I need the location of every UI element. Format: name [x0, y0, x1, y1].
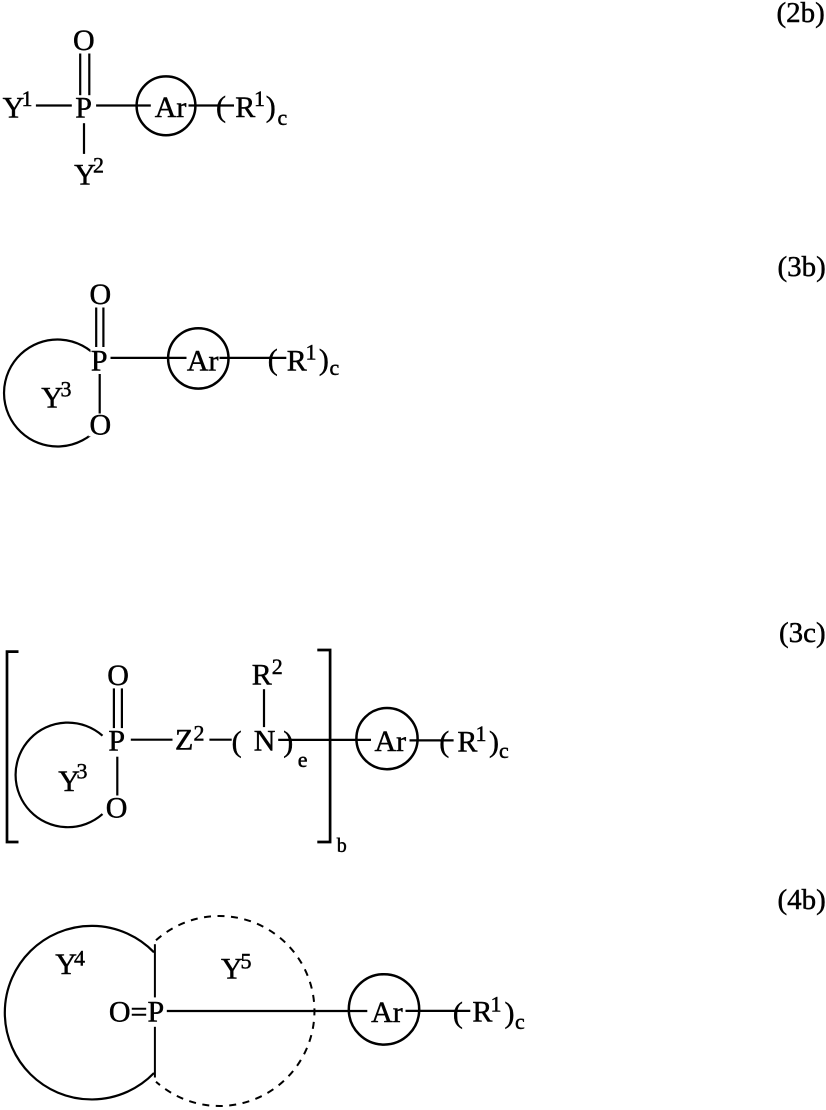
wire bond P-Z2 (3c)	[131, 739, 173, 741]
svg-text:b: b	[337, 835, 347, 857]
svg-text:1: 1	[22, 86, 33, 111]
substituent R2 (3c)	[252, 654, 283, 692]
svg-text:5: 5	[241, 949, 252, 974]
atom O (2b top)	[73, 24, 95, 57]
ring junction line (4b) upper	[154, 944, 156, 997]
label Y4 (4b)	[55, 946, 85, 982]
svg-text:): )	[489, 726, 499, 759]
svg-text:(2b): (2b)	[777, 0, 825, 29]
substituent (R1)c (4b)	[453, 991, 525, 1034]
svg-text:c: c	[499, 738, 509, 763]
svg-text:(: (	[232, 725, 242, 758]
group O=P (4b)	[109, 995, 164, 1028]
formula label (3c)	[779, 617, 826, 649]
svg-text:Y: Y	[221, 953, 243, 986]
label Y5 (4b)	[221, 949, 252, 986]
aryl circle Ar (3c)	[356, 708, 417, 769]
svg-text:(: (	[216, 91, 226, 124]
wire bond N-bracket-Ar (3c)	[278, 739, 371, 741]
ring Y5 dashed arc (4b)	[156, 916, 314, 1106]
subscript b (3c)	[337, 835, 347, 857]
linker Z2 (3c)	[175, 721, 205, 757]
double bond P=O (3c)	[113, 688, 115, 728]
ring Y3 arc (3c)	[16, 723, 103, 828]
svg-text:O=P: O=P	[109, 995, 164, 1028]
svg-text:2: 2	[93, 153, 104, 178]
svg-text:O: O	[106, 792, 128, 825]
svg-text:c: c	[330, 355, 340, 380]
wire bond Z2-(N (3c)	[209, 739, 231, 741]
svg-text:Ar: Ar	[371, 996, 403, 1029]
svg-text:(: (	[268, 343, 278, 376]
svg-text:2: 2	[194, 721, 205, 746]
svg-text:(3b): (3b)	[778, 251, 826, 283]
wire bond P-O (3b)	[99, 374, 101, 414]
atom P (3c)	[108, 724, 125, 757]
wire bond P-O (3c)	[116, 757, 118, 796]
svg-text:1: 1	[476, 721, 487, 746]
svg-text:3: 3	[77, 759, 88, 784]
formula label (2b)	[777, 0, 825, 29]
atom P (3b)	[91, 344, 108, 377]
svg-text:(4b): (4b)	[778, 884, 826, 916]
svg-text:(: (	[439, 726, 449, 759]
substituent Y2	[74, 153, 104, 192]
svg-text:Z: Z	[175, 723, 193, 756]
svg-text:P: P	[75, 91, 92, 124]
label Ar (3c)	[375, 725, 407, 758]
aryl circle Ar (4b)	[349, 974, 419, 1044]
svg-text:1: 1	[254, 86, 265, 111]
wire bond Ar-(R1)c (2b)	[189, 104, 235, 106]
wire bond Y1-P	[36, 104, 72, 106]
wire bond Ar-(R1)c (3c)	[410, 739, 454, 741]
formula label (3b)	[778, 251, 826, 283]
wire bond Ar-(R1)c (4b)	[406, 1010, 471, 1012]
atom O (3c top)	[107, 659, 129, 692]
atom O (3b bottom)	[89, 408, 112, 441]
svg-text:P: P	[108, 724, 125, 757]
label Y3 (3b)	[41, 376, 71, 414]
double bond P=O (2b)	[79, 54, 81, 96]
wire bond P-Ar (3b)	[111, 357, 187, 359]
wire bond P-Ar (2b)	[96, 104, 151, 106]
substituent (R1)c (3c)	[439, 721, 509, 763]
svg-text:2: 2	[272, 654, 283, 679]
svg-text:): )	[283, 725, 293, 758]
atom P (2b)	[75, 91, 92, 124]
svg-text:O: O	[90, 278, 112, 311]
double bond P=O (3b)	[95, 308, 97, 348]
ring Y4 solid arc (4b)	[5, 926, 154, 1100]
ring junction line (4b) lower	[154, 1027, 156, 1078]
svg-text:): )	[266, 91, 276, 124]
svg-text:c: c	[278, 105, 288, 130]
svg-text:1: 1	[491, 991, 502, 1016]
wire bond P-Y2 (2b)	[83, 123, 85, 154]
wire bond N-R2 (3c)	[263, 689, 265, 727]
svg-text:e: e	[298, 747, 308, 772]
svg-text:R: R	[472, 996, 492, 1029]
svg-text:Ar: Ar	[375, 725, 407, 758]
right bracket (3c)	[317, 650, 330, 842]
label Ar (2b)	[155, 91, 187, 124]
svg-text:P: P	[91, 344, 108, 377]
svg-text:1: 1	[306, 340, 317, 365]
atom O (3b top)	[90, 278, 112, 311]
svg-text:4: 4	[74, 946, 85, 971]
svg-text:): )	[505, 996, 515, 1029]
svg-text:R: R	[252, 659, 272, 692]
label Ar (4b)	[371, 996, 403, 1029]
substituent (R1)c (2b)	[216, 86, 288, 130]
svg-text:Ar: Ar	[187, 344, 219, 377]
substituent (R1)c (3b)	[268, 340, 340, 381]
svg-text:R: R	[457, 725, 477, 758]
aryl circle Ar (2b)	[137, 76, 196, 135]
atom O (3c bottom)	[105, 792, 129, 825]
svg-text:Ar: Ar	[155, 91, 187, 124]
wire bond P-Ar (4b)	[167, 1010, 367, 1012]
svg-text:): )	[319, 343, 329, 376]
ring Y3 arc (3b)	[4, 340, 98, 447]
label Ar (3b)	[187, 344, 219, 377]
aryl circle Ar (3b)	[168, 328, 228, 388]
svg-text:3: 3	[61, 376, 72, 401]
svg-text:O: O	[90, 408, 112, 441]
label Y3 (3c)	[58, 759, 87, 798]
left bracket (3c)	[7, 652, 19, 842]
svg-text:N: N	[254, 725, 276, 758]
svg-text:O: O	[107, 659, 129, 692]
svg-text:R: R	[235, 91, 255, 124]
svg-text:(3c): (3c)	[779, 617, 826, 649]
svg-text:R: R	[287, 344, 307, 377]
svg-text:c: c	[515, 1009, 525, 1034]
svg-text:(: (	[453, 996, 463, 1029]
substituent Y1	[3, 86, 33, 124]
formula label (4b)	[778, 884, 826, 916]
svg-text:O: O	[73, 24, 95, 57]
wire bond Ar-(R1)c (3b)	[220, 357, 287, 359]
amine group (N)e (3c)	[232, 725, 308, 772]
